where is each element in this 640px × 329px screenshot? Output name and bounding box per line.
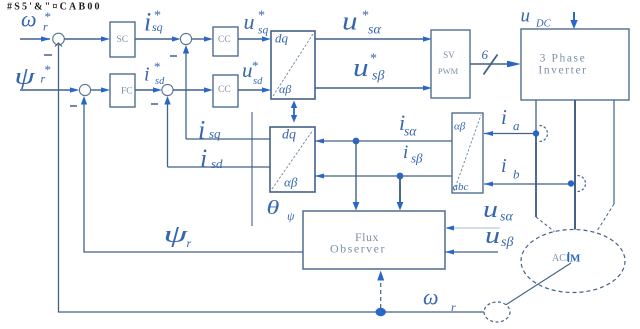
node omega_r label xyxy=(423,285,456,314)
wire isq feedback up into S3 xyxy=(185,52,187,139)
wire phase a xyxy=(535,100,537,133)
svg-text:ψ: ψ xyxy=(287,209,295,223)
current sensor a xyxy=(533,130,539,136)
wire phase b xyxy=(574,100,576,230)
svg-text:u: u xyxy=(342,7,358,36)
wire i_sd output of dq block xyxy=(168,166,271,168)
svg-text:sd: sd xyxy=(253,76,263,87)
svg-text:FC: FC xyxy=(121,87,133,97)
summing junction S2 xyxy=(79,84,90,95)
svg-text:ACI: ACI xyxy=(552,253,569,264)
svg-text:r: r xyxy=(41,72,46,86)
wire theta_psi xyxy=(251,112,253,226)
wire u*s_alpha to SVPWM xyxy=(315,38,423,40)
wire u_s_beta into observer xyxy=(445,251,498,253)
svg-text:u: u xyxy=(353,53,369,82)
svg-text:sα: sα xyxy=(404,124,417,139)
wire i_b to abc block xyxy=(484,183,568,185)
wire isd feedback up into S4 xyxy=(167,103,169,167)
block SVPWM xyxy=(431,30,470,98)
svg-text:sq: sq xyxy=(209,126,221,141)
svg-text:i: i xyxy=(501,155,507,177)
current sensor b xyxy=(568,180,574,186)
block CC2 current controller d xyxy=(213,75,238,107)
wire u_s_alpha into observer xyxy=(445,227,500,229)
block dq->alphabeta voltage transform xyxy=(271,31,315,99)
wire SC to S3, node i*sq xyxy=(135,38,172,40)
svg-text:dq: dq xyxy=(282,128,296,143)
svg-text:M: M xyxy=(570,253,581,265)
svg-text:i: i xyxy=(403,142,408,163)
svg-text:u: u xyxy=(483,196,498,223)
svg-text:Inverter: Inverter xyxy=(538,65,587,77)
wire i_s_alpha down to observer xyxy=(355,141,357,203)
node psi_r label xyxy=(164,220,192,250)
wire u*s_beta to SVPWM xyxy=(315,87,423,89)
svg-text:i: i xyxy=(200,144,207,173)
svg-text:θ: θ xyxy=(267,197,280,219)
svg-text:*: * xyxy=(258,9,265,24)
svg-text:abc: abc xyxy=(453,181,469,193)
svg-text:DC: DC xyxy=(535,19,552,30)
minus at S4 xyxy=(151,103,158,105)
svg-text:sα: sα xyxy=(368,23,381,38)
svg-text:i: i xyxy=(144,64,150,86)
wire CC2 to dq block xyxy=(238,89,262,91)
junction dot omega_r xyxy=(376,308,386,316)
svg-text:sq: sq xyxy=(152,20,163,34)
svg-text:*: * xyxy=(252,58,259,73)
svg-text:u: u xyxy=(242,58,253,82)
wire i_s_alpha into dq block xyxy=(315,140,452,142)
summing junction S3 xyxy=(180,33,191,44)
svg-text:dq: dq xyxy=(275,31,289,46)
svg-text:CC: CC xyxy=(218,85,231,95)
svg-text:u: u xyxy=(485,222,500,249)
node u*sd xyxy=(242,58,263,87)
svg-text:*: * xyxy=(370,52,377,67)
encoder dashed ellipse xyxy=(484,302,510,322)
svg-text:r: r xyxy=(187,236,192,250)
arrow into S1 bottom xyxy=(55,43,62,47)
wire SVPWM to inverter with 6 bus slash xyxy=(470,63,511,65)
svg-text:a: a xyxy=(513,118,520,133)
svg-text:r: r xyxy=(451,300,456,314)
wire i_s_beta down to observer xyxy=(399,176,401,203)
svg-text:sq: sq xyxy=(258,25,268,37)
summing junction S4 xyxy=(162,84,173,95)
svg-text:6: 6 xyxy=(482,47,489,62)
svg-text:ψ: ψ xyxy=(164,220,189,247)
wire omega_r dashed up into observer xyxy=(380,280,382,308)
block CC1 current controller q xyxy=(213,27,238,56)
svg-text:αβ: αβ xyxy=(279,82,291,96)
wire S3 to CC1 xyxy=(192,38,204,40)
svg-text:sβ: sβ xyxy=(501,235,513,250)
node u*sq xyxy=(244,9,269,37)
junction dot i_s_beta xyxy=(397,173,404,180)
svg-text:ψ: ψ xyxy=(15,64,37,90)
svg-text:SC: SC xyxy=(117,35,129,45)
wire i_sq output of dq block xyxy=(186,138,270,140)
svg-text:u: u xyxy=(521,6,531,27)
svg-text:i: i xyxy=(144,7,151,36)
svg-text:sd: sd xyxy=(211,156,223,171)
svg-text:sα: sα xyxy=(500,210,513,225)
block alphabeta->dq current transform xyxy=(270,127,315,192)
wire psi_r feedback into S2 xyxy=(84,103,303,252)
svg-text:3 Phase: 3 Phase xyxy=(540,53,587,65)
minus at S1 xyxy=(44,54,52,56)
svg-text:b: b xyxy=(513,167,520,182)
block 3-phase inverter xyxy=(521,29,629,100)
svg-text:*: * xyxy=(154,59,161,74)
wire i_a to abc block xyxy=(484,133,533,135)
svg-text:ω: ω xyxy=(21,7,37,32)
minus at S2 xyxy=(70,105,77,107)
minus at S3 xyxy=(170,55,177,57)
svg-text:ω: ω xyxy=(423,285,439,310)
svg-text:*: * xyxy=(45,62,52,77)
svg-text:CC: CC xyxy=(218,35,231,45)
node psi*r input label xyxy=(15,62,52,90)
block SC speed controller xyxy=(110,22,135,57)
junction dot i_s_alpha xyxy=(353,138,360,145)
svg-text:αβ: αβ xyxy=(454,121,466,133)
wire i_s_beta into dq block xyxy=(315,175,452,177)
svg-text:sβ: sβ xyxy=(372,69,384,84)
summing junction S1 xyxy=(53,33,65,45)
svg-text:sβ: sβ xyxy=(411,151,423,166)
svg-text:i: i xyxy=(501,105,507,129)
svg-text:Observer: Observer xyxy=(330,242,386,256)
wire psi*r input xyxy=(20,89,70,91)
svg-text:u: u xyxy=(244,9,255,34)
block FC flux controller xyxy=(110,74,135,107)
wire S2 to FC xyxy=(91,89,101,91)
svg-text:PWM: PWM xyxy=(438,66,459,76)
wire S1 to SC xyxy=(64,38,101,40)
wire FC to S4, node i*sd xyxy=(135,89,153,91)
svg-text:αβ: αβ xyxy=(284,175,298,190)
block flux observer xyxy=(303,211,445,269)
svg-text:i: i xyxy=(198,115,205,144)
node omega*r input label xyxy=(21,7,51,34)
svg-text:r: r xyxy=(43,20,48,34)
svg-text:SV: SV xyxy=(443,50,455,60)
svg-text:*: * xyxy=(362,9,369,24)
node u_DC with arrow into inverter xyxy=(521,6,552,30)
wire phase c xyxy=(613,100,615,204)
wire CC1 to dq block xyxy=(238,38,262,40)
wire angle link double arrow xyxy=(293,104,295,119)
shaft wire motor to encoder xyxy=(504,263,571,306)
motor ACIM dashed ellipse xyxy=(521,230,625,293)
block alphabeta-abc transform xyxy=(452,113,483,193)
wire S4 to CC2 xyxy=(173,89,204,91)
wire omega*r input xyxy=(20,38,50,40)
wire speed feedback (outer loop) xyxy=(59,45,485,312)
